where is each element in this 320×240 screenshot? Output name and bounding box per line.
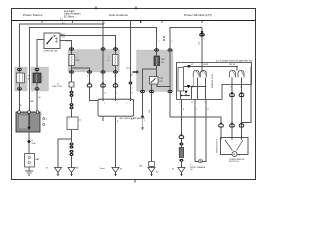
bottom page tick [134,180,136,183]
svg-text:1: 1 [159,41,160,43]
svg-text:L-W: L-W [198,41,200,45]
wire [71,97,73,103]
wires fuse internals [19,71,21,73]
ground triangle relay [148,168,155,173]
battery ground [28,167,30,171]
svg-text:9: 9 [114,76,115,78]
ground triangle P/W column [68,168,75,173]
wire P/W column down [71,74,73,82]
svg-text:from: from [126,67,130,70]
noise filter column [181,134,183,136]
junction connector square [69,82,74,87]
fuse box connector diamonds [17,68,39,91]
svg-text:EC Mirror: EC Mirror [64,15,74,18]
lower contact row [180,91,182,99]
wire to master switch [170,28,202,49]
svg-text:Sand: Sand [100,168,104,170]
svg-text:=: = [42,77,43,79]
svg-text:IGNITION SW: IGNITION SW [44,51,59,53]
fuse P/W white [69,55,75,66]
ground triangle EC [112,168,119,173]
svg-text:4-2: 4-2 [131,119,134,121]
svg-text:W-L: W-L [131,73,133,76]
svg-text:Power Window (LH): Power Window (LH) [184,13,212,17]
right switch group arcs [230,70,245,77]
svg-text:UP: UP [191,64,193,66]
svg-text:1: 1 [70,76,71,78]
svg-text:1: 1 [117,102,118,104]
svg-text:4: 4 [108,60,109,62]
wire split to grounds [71,130,73,143]
svg-text:6-1: 6-1 [62,22,65,24]
wires J/B to EC mirror box [89,74,91,84]
svg-text:1*: 1* [239,155,241,157]
svg-text:4: 4 [87,76,88,78]
side terminals [43,117,45,119]
wire relay block to motor bus [170,93,221,124]
section divider tick 1 [95,7,97,10]
terminals on top [18,111,21,114]
cap connectors right side [219,92,244,127]
inline connector pair [70,91,74,94]
svg-text:P/W: P/W [76,60,80,62]
svg-text:M: M [233,154,235,156]
svg-text:MOTOR LH: MOTOR LH [229,161,239,163]
svg-text:P/W SW: P/W SW [229,64,236,66]
svg-text:16: 16 [191,101,193,103]
svg-text:2: 2 [127,102,128,104]
lower-left contact row with arrow [184,91,187,94]
relay block internal wires [156,52,158,56]
svg-text:JUNCTION: JUNCTION [52,86,62,88]
wires below master switch left part [180,99,182,135]
band connection ticks [42,21,162,23]
svg-text:IE2: IE2 [76,168,79,170]
svg-text:1: 1 [204,101,205,103]
svg-text:1: 1 [108,57,109,59]
svg-text:L: L [197,109,198,111]
inline cap connectors [87,83,118,87]
left group levers [196,71,199,75]
feed junction [201,66,203,68]
wires below master switch right part [231,84,233,137]
wire [71,87,73,91]
circuit breaker rect inside [178,68,184,92]
connector stack [70,143,74,146]
wires fuse boxes down to relay block [19,90,21,112]
wire battery feed [28,132,30,154]
wire relay to ground [151,93,153,161]
svg-text:6-1: 6-1 [60,19,63,21]
wire bus1 horizontal y24 [20,24,104,68]
svg-text:1: 1 [144,120,145,122]
internal bus wires [184,66,203,68]
svg-text:5: 5 [172,41,173,43]
ground triangle left [54,168,61,173]
svg-text:7: 7 [102,76,103,78]
node junction at x103 y24 [102,23,104,25]
down arrow black [187,65,190,68]
fuse box AM1 gray [15,67,28,91]
svg-text:=: = [42,80,43,82]
power window master switch box [177,63,252,100]
svg-text:AM: AM [31,100,34,103]
off page arrow [142,93,144,115]
svg-text:8: 8 [231,86,232,88]
wire ignition ACC to J/B [60,41,72,50]
EC mirror box [98,99,134,116]
svg-text:Power Source: Power Source [23,13,43,17]
J/B internal wires [71,49,73,55]
EC mirror ground wire [115,116,117,167]
wire [71,109,73,117]
relay block bottom diamonds [140,90,173,94]
svg-text:4-1 POWER WINDOW MASTER SW: 4-1 POWER WINDOW MASTER SW [216,60,253,63]
from arrow label [133,70,140,74]
circuit breaker dark [154,56,160,66]
fuse ECU-B white [113,55,119,66]
connector on feed [201,31,203,34]
left switch group arcs [193,70,206,77]
svg-text:5: 5 [104,102,105,104]
svg-text:Auto Antenna: Auto Antenna [109,13,128,17]
svg-text:FRONT DOOR LH: FRONT DOOR LH [217,138,219,153]
section divider tick 2 [135,7,137,10]
ignition switch box [44,33,60,49]
EC mirror bottom stub [102,116,104,121]
svg-text:P/W: P/W [160,78,164,80]
inline connector pair [70,103,74,106]
border frame [12,9,256,180]
svg-text:WINDOW LOCK: WINDOW LOCK [212,73,214,88]
header band bottom line [11,20,256,22]
EC mirror left feed [90,87,99,101]
wire vertical x130.5 auto antenna feed [130,21,132,100]
ground triangle filter [178,168,185,173]
relay inside [150,77,159,85]
ignition main box dark gray [16,112,40,132]
svg-text:P/W: P/W [161,59,165,61]
wire ignition AM1 to fuse [37,40,44,69]
ignition switch lever [47,37,53,44]
connector on antenna feed [129,82,133,85]
svg-text:BJ: BJ [156,172,158,174]
svg-text:L: L [117,93,118,95]
svg-text:2J: 2J [79,120,81,122]
relay block gray [137,50,174,92]
relay block top diamonds [154,48,173,52]
wire bus2 horizontal y29 [30,28,157,113]
junction connector box [67,117,78,130]
svg-text:7A4: 7A4 [139,165,142,168]
fusible link ALT dark [33,73,41,83]
arrow inside [28,114,30,129]
battery [25,154,35,168]
svg-text:W: W [39,97,41,99]
svg-text:5: 5 [179,101,180,103]
main junction block gray [68,50,120,73]
tiny connector dots [163,37,164,38]
svg-text:DOWN: DOWN [203,64,209,66]
fuse AM1 [16,73,24,83]
wire vertical x103 band to J/B [102,21,104,49]
speaker [195,159,206,162]
splice node EA [27,140,31,144]
fuse box ALT gray [31,67,49,91]
J/B bottom connector diamonds [69,70,118,78]
power window motor box [221,138,249,155]
wire ignition IG1 to J/B [60,36,116,50]
svg-text:W-B: W-B [32,143,37,145]
J/B top connector diamonds [69,47,118,51]
svg-text:2: 2 [132,88,133,90]
svg-text:FRONT SPEAKER: FRONT SPEAKER [190,166,206,169]
